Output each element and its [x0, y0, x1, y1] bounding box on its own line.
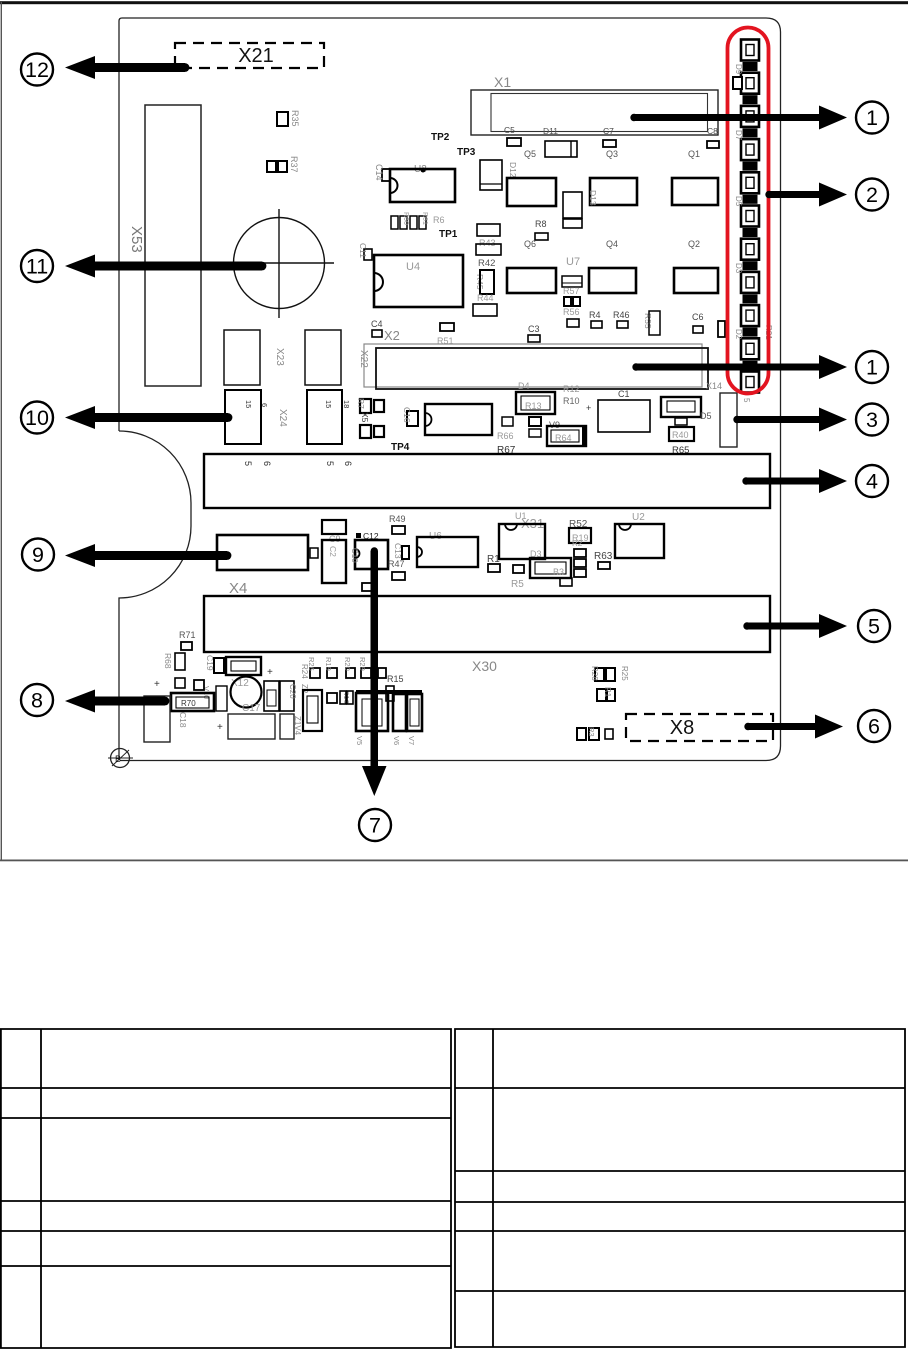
resistor R51: [437, 323, 454, 346]
svg-text:Z1V4: Z1V4: [293, 716, 302, 736]
svg-text:X23: X23: [274, 348, 285, 366]
svg-text:5: 5: [243, 461, 253, 466]
connector X53: [128, 105, 201, 386]
svg-text:R12: R12: [563, 384, 580, 394]
svg-text:+: +: [217, 722, 223, 733]
svg-text:B3: B3: [553, 567, 564, 577]
transistor Q4: [606, 239, 618, 249]
svg-text:1: 1: [866, 106, 878, 130]
labels R24 Z2: [300, 664, 309, 694]
callout circle 11: [21, 250, 53, 282]
svg-text:R42: R42: [478, 258, 495, 269]
resistor R71: [179, 630, 196, 650]
svg-text:D12: D12: [508, 162, 518, 178]
svg-text:R47: R47: [388, 559, 405, 569]
svg-text:R8: R8: [535, 219, 547, 229]
svg-text:R3: R3: [587, 727, 596, 737]
callout circle 12: [21, 54, 53, 86]
svg-text:2: 2: [866, 183, 878, 207]
svg-text:D7: D7: [734, 130, 743, 141]
label X14: [706, 381, 722, 391]
svg-text:Q6: Q6: [524, 239, 536, 249]
test point TP3: [457, 147, 476, 158]
svg-text:Q5: Q5: [524, 149, 536, 159]
svg-text:R6: R6: [433, 215, 445, 225]
diode V9 label: [549, 420, 560, 430]
svg-text:R25: R25: [620, 666, 629, 681]
resistors near X8: [577, 727, 613, 740]
resistor R43: [476, 224, 501, 255]
svg-text:C17: C17: [242, 703, 261, 714]
svg-text:R71: R71: [179, 630, 196, 640]
svg-text:6: 6: [262, 461, 272, 466]
relay K5: [589, 268, 636, 293]
svg-text:R43: R43: [479, 238, 496, 248]
svg-text:6: 6: [868, 715, 880, 739]
svg-text:R57: R57: [563, 286, 580, 296]
svg-text:C14: C14: [374, 164, 384, 181]
svg-text:R19: R19: [324, 657, 333, 671]
svg-text:TP4: TP4: [391, 442, 410, 453]
svg-text:R29: R29: [358, 657, 367, 671]
capacitor C6: [692, 312, 704, 333]
plus marks: [154, 667, 273, 733]
svg-text:+: +: [154, 679, 160, 690]
capacitor C19: [175, 655, 215, 688]
resistor R66: [497, 417, 514, 441]
relay K3: [672, 178, 718, 205]
capacitor C11: [358, 243, 372, 260]
op-amp U3: [390, 164, 455, 202]
capacitor C13: [393, 543, 403, 559]
resistor network R6: [391, 212, 445, 229]
svg-text:R68: R68: [163, 653, 173, 669]
connector X15: [720, 393, 751, 447]
svg-text:U7: U7: [566, 256, 580, 268]
svg-text:5: 5: [868, 615, 880, 639]
svg-text:R26: R26: [307, 657, 316, 671]
svg-text:D3: D3: [734, 263, 743, 274]
svg-text:R64: R64: [555, 433, 572, 443]
svg-text:D4: D4: [518, 381, 530, 391]
callout circle 4: [856, 465, 888, 497]
resistor R16: [327, 690, 353, 704]
callout circle 2: [856, 179, 888, 211]
capacitor C3: [528, 324, 540, 342]
capacitor C15: [216, 686, 227, 711]
resistor R47: [388, 546, 409, 569]
arrow to callout 5 (X4 connector): [743, 614, 847, 638]
svg-text:X22: X22: [358, 350, 369, 368]
svg-text:12: 12: [25, 58, 49, 82]
svg-text:1: 1: [866, 356, 878, 380]
capacitor C22: [473, 304, 497, 316]
test point TP2: [431, 132, 450, 143]
svg-text:10: 10: [25, 406, 49, 430]
svg-text:R37: R37: [289, 156, 299, 173]
capacitor C20: [280, 681, 297, 711]
resistor R55: [643, 311, 660, 335]
capacitor C2: [322, 540, 346, 583]
resistor R52 / B19: [569, 519, 591, 543]
resistor R44: [477, 293, 494, 303]
svg-text:X2: X2: [384, 328, 400, 343]
LED column packages V/D diodes: [743, 62, 758, 370]
resistor R64: [547, 426, 587, 446]
svg-text:X14: X14: [706, 381, 722, 391]
svg-text:TP3: TP3: [457, 147, 476, 158]
svg-text:8: 8: [31, 689, 43, 713]
transistor Q1: [688, 149, 700, 159]
IC U5 (callout 9 target): [217, 535, 308, 570]
arrow to callout 2 (LED column): [765, 183, 847, 207]
red highlight oval: [728, 28, 769, 394]
arrow to callout 9 (chip): [65, 544, 231, 567]
svg-text:R4: R4: [589, 310, 601, 320]
inductor L1: [264, 681, 279, 711]
resistor stack R21: [572, 539, 586, 577]
arrow to callout 12 (X21): [65, 56, 189, 79]
resistor R54: [362, 583, 374, 591]
resistor R49: [389, 514, 406, 534]
arrow to callout 3 (X15): [733, 408, 847, 432]
svg-text:X53: X53: [128, 226, 145, 253]
callout circle 5: [858, 610, 890, 642]
svg-text:D5: D5: [700, 411, 712, 421]
arrow to callout 8 (R70): [65, 690, 169, 713]
capacitor C14: [374, 164, 390, 181]
resistors R73 X5: [356, 398, 384, 438]
svg-text:C11: C11: [358, 243, 368, 258]
diode Z1V4: [280, 714, 302, 739]
svg-text:5: 5: [742, 398, 751, 403]
board outline: [119, 18, 781, 761]
svg-text:D9: D9: [734, 64, 743, 75]
capacitor C12 (arrow 7 source): [350, 531, 388, 569]
svg-text:Q4: Q4: [606, 239, 618, 249]
diode Z2: [303, 690, 322, 731]
svg-text:C10: C10: [350, 548, 359, 563]
svg-text:X21: X21: [238, 45, 274, 67]
op-amp U1 / X31: [499, 511, 545, 559]
resistor R5: [511, 565, 524, 590]
resistors R37 R39: [267, 156, 299, 173]
svg-text:R15: R15: [387, 674, 404, 684]
resistor R0 beside LED column: [733, 77, 742, 89]
callout circle 6: [858, 710, 890, 742]
inductor X12: [231, 677, 262, 715]
svg-text:X4: X4: [229, 580, 247, 597]
diode D5: [661, 397, 712, 425]
transistor Q6: [524, 239, 536, 249]
callout circle 3: [856, 404, 888, 436]
capacitor C23 tall: [144, 696, 170, 742]
diode D13: [563, 190, 598, 228]
svg-text:U4: U4: [406, 261, 420, 273]
svg-text:R56: R56: [563, 307, 580, 317]
resistor R12: [563, 384, 580, 394]
connector X8 (dashed): [626, 714, 773, 741]
resistor R50: [392, 572, 405, 580]
capacitor C4: [371, 319, 383, 337]
svg-text:R1: R1: [603, 687, 612, 698]
connector X1: [471, 74, 718, 135]
trimmer potentiometer (callout 11): [224, 209, 334, 318]
op-amp U4: [374, 255, 463, 307]
transistor Q5: [524, 149, 536, 159]
svg-text:6: 6: [343, 461, 353, 466]
svg-text:18: 18: [342, 400, 351, 408]
svg-text:V7: V7: [407, 736, 416, 745]
connector X24 left: [225, 390, 288, 444]
svg-text:C7: C7: [603, 126, 614, 136]
svg-text:Q2: Q2: [688, 239, 700, 249]
label X4: [229, 580, 247, 597]
svg-text:15: 15: [244, 400, 253, 408]
resistor R45: [475, 270, 494, 294]
transistor Q3: [606, 149, 618, 159]
callout circle 10: [21, 402, 53, 434]
svg-text:C2: C2: [328, 546, 338, 557]
svg-text:R2: R2: [572, 539, 583, 548]
resistor B3: [530, 558, 572, 586]
connector X2: [364, 344, 708, 389]
svg-text:3: 3: [866, 408, 878, 432]
diode V10: [194, 680, 211, 699]
capacitor C5: [504, 125, 521, 146]
svg-text:X8: X8: [670, 717, 694, 739]
capacitor C7: [603, 126, 616, 147]
callout circle 9: [22, 539, 54, 571]
op-amp U2: [615, 512, 664, 558]
svg-text:C18: C18: [178, 712, 188, 728]
resistor R23: [718, 321, 725, 337]
resistor R10: [563, 396, 580, 406]
svg-text:R61: R61: [421, 212, 428, 225]
svg-text:X30: X30: [472, 658, 497, 674]
relay K4: [507, 268, 556, 293]
svg-text:R44: R44: [477, 293, 494, 303]
capacitor C18: [178, 712, 188, 728]
svg-text:R46: R46: [613, 310, 630, 320]
label X30: [472, 658, 497, 674]
relay K1: [507, 178, 556, 206]
svg-text:X5: X5: [360, 412, 370, 423]
arrow to callout 10 (X24): [65, 406, 232, 429]
arrow to callout 6 (X8): [744, 715, 843, 739]
svg-text:R63: R63: [594, 551, 613, 562]
resistor R57: [562, 276, 582, 296]
resistor R40: [669, 427, 694, 456]
svg-text:C1: C1: [618, 389, 630, 399]
svg-text:V5: V5: [355, 736, 364, 745]
arrow to callout 1 (X1 connector): [630, 106, 847, 130]
svg-text:C16: C16: [402, 407, 412, 423]
svg-text:C4: C4: [371, 319, 383, 329]
arrow to callout 7 (C12) vertical: [362, 547, 387, 796]
svg-text:U2: U2: [632, 512, 645, 523]
label X2: [384, 328, 400, 343]
arrow to callout 11 (trimmer circle): [65, 255, 266, 278]
resistor R15: [386, 674, 404, 701]
diode D12: [480, 160, 518, 190]
resistor B9: [529, 417, 541, 437]
capacitor C1: [598, 389, 650, 432]
svg-text:X1: X1: [494, 74, 511, 90]
capacitor C17 body: [228, 714, 275, 739]
svg-text:R55: R55: [643, 313, 653, 329]
svg-text:R28: R28: [590, 666, 599, 681]
svg-text:B: B: [115, 754, 121, 764]
svg-text:+: +: [267, 667, 273, 678]
resistor R42: [478, 258, 495, 269]
transistors V5 V6 V7: [355, 690, 422, 745]
svg-text:R40: R40: [672, 430, 689, 440]
svg-text:D2: D2: [734, 329, 743, 340]
connector X21 (dashed): [175, 43, 324, 68]
connector X23: [224, 330, 285, 385]
connector X24 right: [307, 390, 351, 444]
resistors R28 R25: [590, 666, 629, 681]
resistor R70 (callout 8 target): [171, 693, 214, 711]
resistor R13: [516, 392, 555, 414]
diode D4 label: [518, 381, 530, 391]
resistor R48: [310, 548, 318, 558]
svg-text:R7: R7: [356, 398, 366, 409]
svg-text:R35: R35: [290, 110, 300, 127]
svg-text:Q1: Q1: [688, 149, 700, 159]
callout circle 7: [359, 809, 391, 841]
svg-text:D5: D5: [734, 196, 743, 207]
svg-text:+: +: [586, 403, 591, 413]
svg-text:R49: R49: [389, 514, 406, 524]
svg-text:11: 11: [26, 255, 48, 279]
capacitor C8: [707, 126, 719, 148]
resistor R8: [535, 219, 548, 240]
callout circle 1 (second): [856, 351, 888, 383]
arrow to callout 1b (X2 connector): [632, 355, 847, 379]
resistor R68: [163, 653, 185, 670]
callout circle 1: [856, 102, 888, 134]
relay K2: [590, 178, 637, 205]
op-amp C16 chip: [425, 404, 492, 435]
svg-text:Q3: Q3: [606, 149, 618, 159]
transistor Q2: [688, 239, 700, 249]
svg-text:4: 4: [866, 470, 878, 494]
resistors R27 R26b: [597, 687, 615, 701]
svg-text:C5: C5: [504, 125, 515, 135]
svg-text:TP1: TP1: [439, 229, 458, 240]
svg-text:V6: V6: [392, 736, 401, 745]
connector X4: [204, 596, 770, 652]
test point TP1: [439, 229, 458, 240]
capacitor C21: [214, 657, 261, 675]
fiducial B: [108, 749, 133, 768]
svg-text:D11: D11: [543, 126, 558, 136]
svg-text:X24: X24: [277, 409, 288, 427]
svg-text:R5: R5: [511, 579, 524, 590]
svg-text:9: 9: [32, 543, 44, 567]
svg-text:TP2: TP2: [431, 132, 450, 143]
svg-text:C6: C6: [692, 312, 704, 322]
svg-text:7: 7: [369, 814, 381, 838]
resistor R35: [277, 110, 300, 127]
callout circle 8: [21, 684, 53, 716]
svg-text:R60: R60: [402, 212, 409, 225]
resistors R26 R19 R20: [307, 657, 386, 678]
svg-text:R20: R20: [343, 657, 352, 671]
connector X9 long: [204, 454, 770, 508]
svg-text:R66: R66: [497, 431, 514, 441]
op-amp U6: [417, 531, 478, 567]
svg-text:C3: C3: [528, 324, 540, 334]
resistor R4: [589, 310, 602, 328]
svg-text:C20: C20: [288, 684, 297, 699]
svg-text:D13: D13: [588, 190, 598, 206]
plus mark: [586, 403, 591, 413]
test point TP4: [391, 442, 410, 453]
svg-text:C8: C8: [707, 126, 718, 136]
resistor R1: [487, 554, 500, 572]
svg-text:R13: R13: [525, 401, 542, 411]
svg-text:5: 5: [325, 461, 335, 466]
capacitor C9: [322, 520, 346, 544]
svg-text:R70: R70: [181, 699, 196, 708]
left table: [1, 1029, 451, 1348]
diode D11: [543, 126, 577, 157]
svg-text:R10: R10: [563, 396, 580, 406]
right table: [455, 1029, 905, 1347]
resistor R63: [594, 551, 613, 569]
capacitor C16 small: [402, 407, 418, 426]
svg-text:6: 6: [260, 403, 269, 407]
op-amp U7: [566, 256, 580, 268]
LED labels: [734, 64, 773, 340]
connector X22: [305, 330, 369, 385]
relay K6: [674, 268, 718, 293]
resistor R67: [497, 445, 516, 456]
arrow to callout 4 (long connector): [742, 469, 847, 493]
svg-text:15: 15: [324, 400, 333, 408]
resistor R46: [613, 310, 630, 328]
resistor R56: [563, 297, 580, 327]
